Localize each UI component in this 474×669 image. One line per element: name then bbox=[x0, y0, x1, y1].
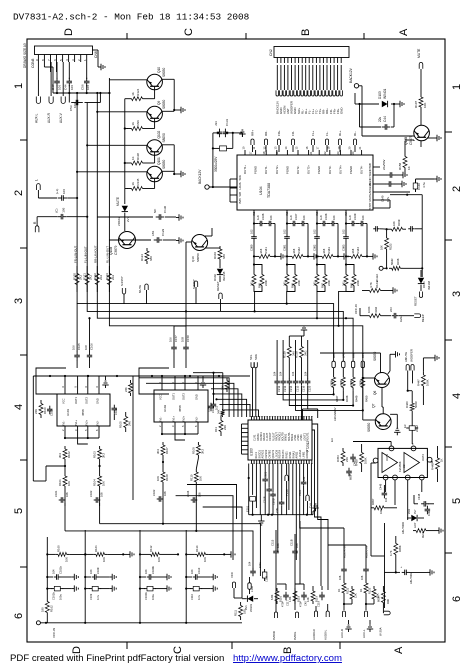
capacitor C102b 106 bbox=[152, 485, 167, 506]
svg-text:E3: E3 bbox=[330, 438, 334, 442]
svg-text:TAB: TAB bbox=[368, 163, 372, 168]
svg-text:106: 106 bbox=[65, 492, 69, 497]
CON8 pin 6 bbox=[53, 55, 57, 63]
svg-text:C109: C109 bbox=[96, 567, 100, 574]
U102 bottom pins bbox=[158, 422, 198, 428]
CN2 pin 13 bbox=[318, 58, 322, 115]
svg-text:DRAWG SIZE A3: DRAWG SIZE A3 bbox=[23, 43, 27, 68]
transistor Q9 S8050 bbox=[147, 100, 166, 122]
resistor R122 2K2 bbox=[93, 266, 103, 292]
svg-text:R107: R107 bbox=[414, 100, 418, 108]
U104 top pin PGND bbox=[348, 146, 354, 174]
capacitor C33 bbox=[214, 121, 222, 137]
svg-text:ZD102: ZD102 bbox=[117, 217, 121, 226]
svg-text:MUTE: MUTE bbox=[417, 48, 421, 58]
svg-text:102: 102 bbox=[216, 405, 219, 410]
svg-text:R107: R107 bbox=[165, 447, 169, 454]
svg-text:C158: C158 bbox=[186, 335, 190, 342]
svg-text:R160: R160 bbox=[56, 545, 60, 552]
CN2 pin 1 bbox=[276, 58, 280, 115]
resistor R138 1K bbox=[128, 153, 146, 165]
svg-text:WOOFER: WOOFER bbox=[410, 349, 414, 362]
ground R163 bbox=[390, 287, 397, 293]
wire U103 bottom col 12 bbox=[295, 464, 297, 561]
svg-text:R90: R90 bbox=[386, 599, 390, 604]
capacitor E3b bbox=[399, 566, 427, 584]
svg-text:S8050: S8050 bbox=[196, 253, 200, 262]
svg-text:AUX-R: AUX-R bbox=[340, 629, 344, 638]
capacitor C108 1u8 bbox=[317, 213, 328, 226]
CN2 pin 11 bbox=[311, 58, 315, 115]
svg-text:104: 104 bbox=[384, 497, 388, 502]
resistor R460 560R bbox=[405, 391, 418, 413]
resistor R141 3K3 bbox=[254, 247, 276, 259]
dot bracket U102 out bbox=[212, 393, 217, 401]
svg-text:OUT2-: OUT2- bbox=[296, 166, 300, 174]
svg-text:RL-: RL- bbox=[353, 131, 357, 136]
svg-text:IN2-: IN2- bbox=[195, 416, 199, 421]
svg-text:W-32A: W-32A bbox=[375, 274, 379, 282]
capacitor C106 108 bbox=[84, 317, 93, 368]
svg-text:10K: 10K bbox=[102, 481, 106, 486]
CN2 pin 10 bbox=[307, 58, 311, 115]
wire Q10B emitter to R158 bbox=[405, 140, 421, 147]
svg-text:R104: R104 bbox=[213, 252, 217, 259]
svg-text:390K: 390K bbox=[329, 380, 333, 386]
capacitor C448b bbox=[425, 506, 431, 516]
svg-text:104: 104 bbox=[361, 215, 365, 220]
plug FR+ bbox=[275, 130, 281, 154]
svg-text:34J: 34J bbox=[283, 281, 287, 286]
svg-text:10K: 10K bbox=[198, 476, 202, 481]
IC U2 KIA4558 bbox=[373, 446, 432, 480]
svg-text:2K2: 2K2 bbox=[99, 274, 103, 280]
svg-text:IN4: IN4 bbox=[344, 211, 348, 216]
wire CON8 pin 8 to bus bbox=[44, 62, 56, 93]
connector CN2 bbox=[269, 47, 349, 58]
ground Q101 bbox=[174, 171, 185, 177]
svg-text:GND: GND bbox=[339, 108, 343, 114]
bus wire 4 bbox=[109, 280, 362, 355]
capacitor C129 LB1 bbox=[109, 228, 176, 242]
resistor R159 10K bbox=[380, 219, 406, 231]
wire base Q9 bbox=[125, 118, 155, 128]
filter cell R114 bbox=[185, 530, 225, 623]
svg-text:R101: R101 bbox=[58, 479, 62, 486]
transistor Q10B C3879 bbox=[109, 232, 136, 256]
svg-text:VCC: VCC bbox=[159, 394, 163, 400]
wire collector Q101 bbox=[77, 171, 147, 173]
svg-text:106: 106 bbox=[360, 575, 364, 580]
svg-text:3K3: 3K3 bbox=[200, 449, 204, 454]
plug SDA bbox=[254, 354, 258, 417]
U103 top pin labels bbox=[254, 432, 310, 441]
svg-text:GND21: GND21 bbox=[306, 450, 309, 459]
CN2 pin 18 bbox=[336, 58, 340, 115]
capacitor C115 106 bbox=[271, 530, 281, 585]
svg-text:3K8: 3K8 bbox=[322, 248, 326, 253]
svg-text:IN2+: IN2+ bbox=[84, 419, 88, 425]
svg-text:BEEP: BEEP bbox=[421, 314, 425, 322]
svg-text:OUT1: OUT1 bbox=[74, 397, 78, 404]
svg-text:FR-L/IN-OUT: FR-L/IN-OUT bbox=[73, 246, 77, 263]
svg-text:C101: C101 bbox=[54, 490, 58, 497]
svg-text:R447: R447 bbox=[335, 395, 339, 402]
ground C130 bbox=[176, 214, 183, 220]
svg-text:FL-: FL- bbox=[325, 131, 329, 136]
wire U103 bottom col 11 bbox=[292, 464, 294, 515]
svg-text:3300u/25V: 3300u/25V bbox=[214, 156, 218, 172]
svg-text:R102: R102 bbox=[67, 451, 71, 458]
svg-text:104: 104 bbox=[279, 371, 283, 376]
svg-text:104: 104 bbox=[273, 371, 277, 376]
capacitor C157 106 bbox=[169, 326, 187, 368]
wire U103 bottom col 3 bbox=[255, 464, 257, 509]
resistor R162 180 bbox=[40, 598, 53, 616]
svg-text:LB1: LB1 bbox=[151, 230, 155, 236]
svg-text:WB: WB bbox=[238, 192, 242, 197]
svg-text:RR+: RR+ bbox=[251, 130, 255, 136]
svg-text:100u: 100u bbox=[258, 562, 262, 568]
terminal BACK12V bbox=[349, 67, 359, 88]
resistor 390K LF0 bbox=[339, 374, 349, 402]
svg-text:A: A bbox=[393, 646, 405, 654]
resistor R47 220K bbox=[313, 265, 320, 291]
filter cell R112 bbox=[139, 530, 179, 623]
plug AUX-L bbox=[34, 62, 40, 123]
terminal BACK12V mid bbox=[198, 169, 237, 189]
svg-text:12K: 12K bbox=[306, 597, 310, 602]
svg-text:TDA7388: TDA7388 bbox=[267, 183, 271, 198]
capacitor C56 106 bbox=[81, 62, 91, 93]
CON8 pin 1 bbox=[83, 55, 87, 63]
U104 top pin OUT4- bbox=[358, 146, 364, 174]
capacitor C448a bbox=[414, 493, 434, 506]
svg-text:680: 680 bbox=[149, 256, 153, 261]
svg-text:RR-: RR- bbox=[264, 131, 268, 136]
wire collector Q102 bbox=[87, 144, 147, 146]
zone letters bottom bbox=[71, 646, 405, 654]
svg-text:22u: 22u bbox=[378, 116, 382, 122]
svg-text:R458: R458 bbox=[355, 459, 359, 466]
ground R129 R139 bbox=[301, 326, 307, 336]
IC U101 4558 bbox=[57, 375, 110, 426]
ground cell IN2 bbox=[308, 253, 318, 259]
wire U103 bottom col 1 bbox=[248, 464, 250, 515]
svg-text:104: 104 bbox=[144, 569, 148, 574]
svg-text:Q10: Q10 bbox=[191, 256, 195, 262]
ground rail right bbox=[312, 504, 318, 515]
svg-text:1K: 1K bbox=[359, 589, 363, 592]
capacitor C113 104 bbox=[248, 561, 256, 576]
ground near CON8 bbox=[93, 50, 106, 70]
svg-text:GND: GND bbox=[96, 398, 100, 404]
wire loop right of U103 bbox=[303, 409, 318, 505]
capacitor C106 1u8 bbox=[254, 213, 265, 226]
svg-text:ST8Y: ST8Y bbox=[368, 202, 372, 209]
U101 bottom pins bbox=[61, 426, 99, 432]
resistor R105 24K bbox=[119, 412, 132, 432]
U104 top pin OUT1+ bbox=[242, 146, 248, 174]
capacitor column C214 bbox=[287, 362, 354, 406]
plug SCL bbox=[249, 354, 254, 417]
bus wire 2 bbox=[87, 280, 343, 355]
resistor 24K upper right U101 bbox=[124, 380, 133, 396]
capacitor C101 106 bbox=[54, 489, 69, 506]
svg-text:OUT3+: OUT3+ bbox=[307, 165, 311, 174]
resistor network bottom right 1 bbox=[270, 584, 325, 607]
wire diode net bbox=[355, 93, 397, 105]
svg-text:R161: R161 bbox=[94, 545, 98, 552]
svg-text:1K: 1K bbox=[337, 589, 341, 592]
capacitor column C216 bbox=[299, 362, 306, 420]
capacitor C130 NC bbox=[97, 205, 176, 219]
svg-text:OUT1-: OUT1- bbox=[264, 166, 268, 174]
svg-text:106: 106 bbox=[163, 491, 167, 496]
svg-text:R450: R450 bbox=[364, 395, 368, 402]
resistor R124b 680 bbox=[140, 248, 153, 264]
svg-text:R449: R449 bbox=[355, 395, 359, 402]
svg-text:C47: C47 bbox=[51, 84, 55, 90]
svg-text:U2: U2 bbox=[402, 464, 406, 468]
resistor R158 1K bbox=[398, 141, 411, 176]
svg-text:R105: R105 bbox=[119, 421, 123, 428]
svg-text:MUTE: MUTE bbox=[138, 285, 142, 293]
capacitor column C213 bbox=[279, 340, 344, 400]
wire brackets above U103 bbox=[139, 378, 259, 417]
wire KIA bottom pins bbox=[371, 446, 438, 540]
resistor R103 3K3 bbox=[93, 446, 106, 462]
svg-text:R108: R108 bbox=[165, 474, 169, 481]
U103 bottom pin labels bbox=[255, 449, 309, 458]
wire U101 feedback bbox=[64, 432, 99, 444]
capacitor C081 102 series bbox=[283, 229, 290, 251]
capacitor C141 223 bbox=[389, 307, 414, 322]
capacitor C110 104 bbox=[264, 215, 275, 256]
svg-text:2: 2 bbox=[13, 190, 25, 196]
svg-text:C446: C446 bbox=[379, 483, 383, 490]
svg-text:C44: C44 bbox=[63, 84, 67, 90]
svg-text:FL-L/IN-OUT: FL-L/IN-OUT bbox=[83, 246, 87, 263]
svg-text:4558: 4558 bbox=[178, 405, 182, 412]
resistor R153 10K vertical bbox=[380, 229, 393, 269]
svg-text:RR-L/IN-OUT: RR-L/IN-OUT bbox=[94, 245, 98, 263]
U104 top pin OUT2- bbox=[295, 146, 301, 174]
resistor R447 100K bbox=[416, 371, 429, 405]
svg-text:4.7K: 4.7K bbox=[369, 282, 373, 288]
svg-text:104: 104 bbox=[51, 569, 55, 574]
svg-text:+: + bbox=[399, 566, 403, 568]
svg-text:104: 104 bbox=[190, 569, 194, 574]
CON8 pin 7 bbox=[47, 55, 51, 63]
svg-text:C129: C129 bbox=[161, 228, 165, 236]
svg-text:102: 102 bbox=[250, 229, 254, 234]
svg-text:C106: C106 bbox=[89, 343, 93, 350]
wire U102 feedback bbox=[161, 428, 198, 440]
svg-text:VCC: VCC bbox=[230, 572, 234, 578]
resistor R44B 1K bbox=[431, 450, 444, 477]
wire cell IN4 to bus bbox=[339, 291, 354, 325]
svg-text:C130: C130 bbox=[163, 205, 167, 213]
svg-text:102: 102 bbox=[313, 229, 317, 234]
capacitor C04B series on bracket bbox=[208, 402, 219, 412]
ground transistor emitters bbox=[174, 107, 185, 113]
resistor R129 346 bbox=[282, 336, 304, 362]
svg-text:224: 224 bbox=[302, 476, 306, 481]
svg-text:Q10: Q10 bbox=[157, 67, 161, 73]
svg-text:Q10B: Q10B bbox=[109, 247, 113, 255]
svg-text:C140: C140 bbox=[417, 183, 421, 190]
svg-text:OUT1: OUT1 bbox=[385, 454, 389, 461]
svg-text:C100b: C100b bbox=[144, 592, 148, 600]
diode D103 IN5401 bbox=[378, 88, 388, 107]
resistor R458a 100K bbox=[355, 444, 368, 472]
svg-text:4192: 4192 bbox=[374, 306, 378, 313]
svg-text:4: 4 bbox=[451, 393, 463, 399]
svg-text:R142: R142 bbox=[297, 247, 301, 254]
plug FL+ bbox=[309, 130, 315, 154]
svg-text:5: 5 bbox=[451, 498, 463, 504]
svg-text:R122: R122 bbox=[346, 587, 350, 594]
U104 top pin PGND bbox=[284, 146, 290, 174]
svg-text:6: 6 bbox=[451, 596, 463, 602]
svg-text:1M12: 1M12 bbox=[399, 315, 403, 322]
svg-text:104: 104 bbox=[291, 371, 295, 376]
wire left feedback U101 bbox=[33, 466, 65, 481]
resistor R104b 10K bbox=[93, 462, 106, 489]
capacitor C21B bbox=[275, 464, 284, 515]
svg-text:1: 1 bbox=[13, 83, 25, 89]
svg-text:E3: E3 bbox=[403, 424, 407, 428]
svg-text:2: 2 bbox=[451, 186, 463, 192]
svg-text:470P: 470P bbox=[299, 601, 303, 607]
svg-text:C10: C10 bbox=[211, 408, 215, 413]
CON8 pin 2 bbox=[77, 55, 81, 63]
plug R input bbox=[33, 217, 57, 233]
svg-text:IN1-: IN1- bbox=[159, 416, 163, 421]
svg-text:R109: R109 bbox=[191, 447, 195, 454]
svg-text:104: 104 bbox=[332, 215, 336, 220]
svg-text:C081: C081 bbox=[283, 244, 287, 251]
svg-text:106: 106 bbox=[73, 103, 77, 108]
CN2 pin 8 bbox=[300, 58, 304, 115]
diode D101 IN4148 bbox=[418, 270, 431, 291]
svg-text:680: 680 bbox=[222, 254, 226, 259]
svg-text:PGND: PGND bbox=[349, 166, 353, 174]
resistor R459 bbox=[413, 522, 436, 538]
svg-text:24K: 24K bbox=[34, 409, 38, 414]
transistor Q10 S8050 bbox=[147, 67, 166, 90]
wire mute bus vertical bbox=[124, 99, 126, 198]
capacitor column C225 bbox=[303, 340, 317, 409]
svg-text:4.7u: 4.7u bbox=[386, 196, 390, 202]
capacitor C446 104 bbox=[379, 483, 389, 502]
svg-text:600R: 600R bbox=[376, 596, 380, 602]
svg-text:104: 104 bbox=[89, 569, 93, 574]
svg-text:MUTE: MUTE bbox=[368, 193, 372, 201]
svg-text:A8L/700R: A8L/700R bbox=[401, 522, 405, 534]
svg-text:RESET: RESET bbox=[216, 281, 220, 291]
svg-text:DV7831-A2.sch-2 - Mon Feb 18 1: DV7831-A2.sch-2 - Mon Feb 18 11:34:53 20… bbox=[13, 12, 250, 23]
svg-text:R135: R135 bbox=[136, 178, 140, 185]
svg-text:6.8K: 6.8K bbox=[270, 594, 274, 600]
svg-text:R112: R112 bbox=[149, 545, 153, 552]
CN2 pin 17 bbox=[332, 58, 336, 115]
CN2 pin 7 bbox=[297, 58, 301, 115]
svg-text:R159: R159 bbox=[397, 219, 401, 226]
wire loop U101 left bbox=[33, 368, 147, 481]
resistor R102 3K3 bbox=[58, 446, 71, 462]
svg-text:106: 106 bbox=[72, 345, 76, 350]
svg-text:IN1-: IN1- bbox=[62, 420, 66, 425]
resistor R101 10K bbox=[58, 462, 71, 489]
svg-text:106: 106 bbox=[100, 492, 104, 497]
svg-text:C: C bbox=[183, 28, 195, 36]
svg-text:1u8: 1u8 bbox=[289, 215, 293, 220]
plug VCC mid-bottom bbox=[230, 572, 242, 598]
svg-text:106: 106 bbox=[58, 85, 62, 90]
svg-text:C3879: C3879 bbox=[114, 245, 118, 255]
resistor R164 100K bbox=[354, 304, 391, 317]
svg-text:10K: 10K bbox=[67, 481, 71, 486]
wire 3300u net bbox=[212, 132, 238, 187]
svg-text:C20B: C20B bbox=[272, 498, 276, 505]
capacitor C11B 106 bbox=[290, 534, 300, 585]
svg-text:R123: R123 bbox=[105, 273, 109, 280]
svg-text:R99: R99 bbox=[136, 120, 140, 126]
svg-text:2K2: 2K2 bbox=[111, 274, 115, 280]
IC U103 PT2312 bbox=[248, 420, 312, 460]
svg-text:OUT4-: OUT4- bbox=[360, 166, 364, 174]
plug VCC-IN right bbox=[379, 608, 391, 636]
RC cell IN1 wires bbox=[253, 218, 255, 266]
zone numbers right bbox=[451, 84, 463, 602]
svg-text:102: 102 bbox=[342, 229, 346, 234]
svg-text:3K8: 3K8 bbox=[259, 248, 263, 253]
svg-text:10K: 10K bbox=[379, 509, 383, 514]
svg-text:1K: 1K bbox=[440, 458, 444, 462]
svg-text:C024: C024 bbox=[298, 489, 302, 496]
zener ZD101 9V1 bbox=[242, 596, 258, 613]
plug S/1S5Y left bbox=[120, 276, 126, 303]
svg-text:3K8: 3K8 bbox=[292, 248, 296, 253]
U104 bottom pins bbox=[252, 210, 348, 218]
ground cell IN3 bbox=[338, 253, 348, 259]
wire KIA top connections bbox=[353, 430, 413, 446]
svg-text:34J: 34J bbox=[342, 281, 346, 286]
svg-text:VCC-IN: VCC-IN bbox=[52, 628, 56, 638]
ground mid U101 bbox=[102, 376, 108, 388]
svg-text:106: 106 bbox=[338, 575, 342, 580]
diode ZD4 4V7 bbox=[407, 509, 424, 522]
resistor R139 34G bbox=[295, 336, 308, 362]
capacitor C143 bbox=[408, 226, 422, 232]
svg-text:C110: C110 bbox=[197, 567, 201, 574]
resistor R461 600R bbox=[376, 586, 385, 608]
CON8 pin 8 bbox=[41, 55, 45, 63]
svg-text:102: 102 bbox=[283, 229, 287, 234]
wire cell IN1 to bus bbox=[255, 291, 262, 311]
svg-text:U104: U104 bbox=[259, 186, 263, 195]
bus wire 3 bbox=[97, 280, 353, 355]
capacitor C131 bbox=[223, 118, 229, 137]
CN2 pin 2 bbox=[279, 58, 283, 115]
svg-text:SGND: SGND bbox=[368, 168, 372, 176]
rail below U103 bbox=[249, 514, 313, 516]
svg-text:C140: C140 bbox=[380, 195, 384, 202]
svg-text:IN1+: IN1+ bbox=[172, 415, 176, 421]
svg-text:1K: 1K bbox=[131, 182, 135, 186]
